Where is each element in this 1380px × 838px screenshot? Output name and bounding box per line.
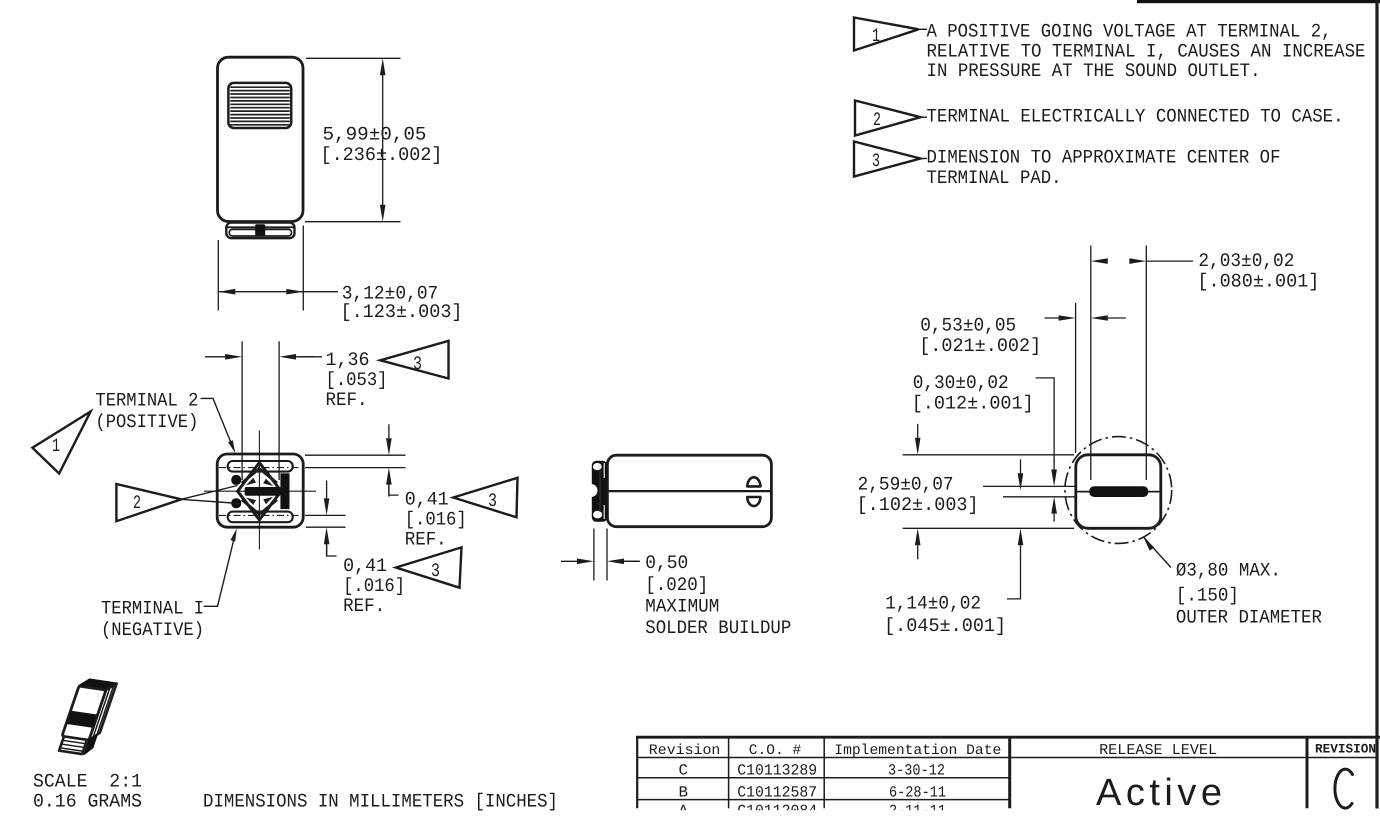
dim 1.14 leader elbow <box>1007 558 1021 599</box>
dim 0.41a leader elbow <box>389 485 399 496</box>
note flag 1 triangle <box>854 18 919 51</box>
revision cell big C <box>1335 769 1353 808</box>
svg-text:0,41: 0,41 <box>405 489 449 511</box>
svg-text:[.021±.002]: [.021±.002] <box>919 335 1041 357</box>
dim 0.41b extension line top <box>305 514 346 516</box>
svg-text:MAXIMUM: MAXIMUM <box>645 595 719 617</box>
revision table revision-cell divider <box>1306 737 1309 808</box>
bottom view bottom slot centerline dashed <box>219 514 301 516</box>
svg-text:2: 2 <box>873 109 881 131</box>
svg-text:0,50: 0,50 <box>645 552 688 574</box>
front view foot slot <box>229 229 291 236</box>
side view lower bump mark <box>747 497 760 506</box>
bottom view internal arrow lower-left <box>246 498 256 505</box>
dim 0.41b flag 3 triangle <box>396 547 462 587</box>
svg-text:SCALE 2:1: SCALE 2:1 <box>33 770 142 792</box>
sheet border right edge <box>1375 0 1378 809</box>
note flag 3 triangle <box>854 142 921 177</box>
dim 1.36 extension line right <box>278 341 280 480</box>
detail view black terminal bar <box>1089 486 1148 497</box>
dim 0.41a arrow up <box>386 468 392 485</box>
svg-text:(NEGATIVE): (NEGATIVE) <box>101 619 204 641</box>
note flag 3 leader stub <box>918 158 927 160</box>
svg-text:OUTER DIAMETER: OUTER DIAMETER <box>1176 607 1322 629</box>
dim 3.12 extension line left <box>217 240 219 311</box>
svg-text:2,59±0,07: 2,59±0,07 <box>858 473 954 495</box>
svg-text:TERMINAL I: TERMINAL I <box>101 598 204 620</box>
dim 0.50 arrows <box>577 559 594 565</box>
dim 0.53 arrows <box>1059 315 1076 321</box>
svg-text:[.016]: [.016] <box>343 575 405 597</box>
dim 0.41a flag 3 triangle <box>453 478 517 518</box>
dim 0.50 extension line right <box>606 529 608 581</box>
svg-text:C.O. #: C.O. # <box>749 743 802 759</box>
side view left terminal <box>591 461 607 522</box>
svg-text:C: C <box>679 762 689 780</box>
svg-text:REF.: REF. <box>343 595 385 617</box>
svg-text:0.16 GRAMS: 0.16 GRAMS <box>33 790 142 812</box>
dim 0.41b extension line bottom <box>306 526 346 528</box>
note flag 1 leader stub <box>916 28 927 30</box>
detail diameter leader line <box>1143 537 1171 568</box>
svg-text:(POSITIVE): (POSITIVE) <box>95 411 198 433</box>
svg-text:Ø3,80 MAX.: Ø3,80 MAX. <box>1176 560 1281 582</box>
svg-text:DIMENSIONS IN MILLIMETERS [INC: DIMENSIONS IN MILLIMETERS [INCHES] <box>203 790 558 812</box>
sheet border top edge (partial) <box>1137 0 1380 3</box>
svg-text:Implementation Date: Implementation Date <box>834 743 1001 759</box>
dim 3.12 dimension line <box>218 291 338 293</box>
front view grille slats <box>230 87 289 125</box>
svg-text:TERMINAL ELECTRICALLY CONNECTE: TERMINAL ELECTRICALLY CONNECTED TO CASE. <box>927 106 1344 128</box>
dim 5.99 extension line top <box>306 57 401 59</box>
bottom view diamond outline <box>238 463 282 520</box>
flag 2 leader upper <box>181 486 237 500</box>
dim 0.41a extension line bottom <box>305 467 406 469</box>
bottom view body outline <box>217 454 303 527</box>
side view mid parting line <box>607 490 771 492</box>
detail view phantom circle <box>1065 437 1172 544</box>
svg-text:[.150]: [.150] <box>1176 585 1239 607</box>
svg-text:1: 1 <box>872 25 880 47</box>
detail diameter leader arrowhead <box>1143 537 1154 551</box>
svg-text:REF.: REF. <box>405 529 447 551</box>
dim 2.59 arrow up <box>915 528 921 545</box>
dim 1.14 arrow down <box>1018 473 1024 490</box>
dim 0.30 leader elbow <box>1036 378 1055 462</box>
side view upper bump mark <box>747 477 760 486</box>
dim 1.36 extension line left <box>241 341 243 480</box>
front view sound-outlet grille frame <box>228 83 291 128</box>
svg-text:3: 3 <box>413 353 422 375</box>
svg-text:0,53±0,05: 0,53±0,05 <box>920 314 1016 336</box>
svg-text:RELEASE LEVEL: RELEASE LEVEL <box>1099 742 1217 759</box>
dim 0.50 extension line left <box>593 529 595 581</box>
dim 0.53 extension line <box>1075 303 1077 453</box>
revision table header underline <box>637 757 1376 759</box>
svg-text:1: 1 <box>52 435 60 457</box>
svg-text:[.045±.001]: [.045±.001] <box>884 615 1006 637</box>
flag 2 leader lower <box>181 499 239 503</box>
svg-text:5,99±0,05: 5,99±0,05 <box>323 124 427 146</box>
bottom view bottom slot <box>228 512 293 523</box>
svg-text:6-28-11: 6-28-11 <box>889 783 946 801</box>
front view foot outline <box>226 223 294 239</box>
svg-text:REF.: REF. <box>326 389 368 411</box>
bottom view horizontal centerline <box>204 490 316 492</box>
isometric view of part <box>57 678 116 755</box>
revision table release-level divider <box>1008 737 1011 808</box>
dim 2.59 extension line bottom <box>903 527 1074 529</box>
front view foot top line <box>228 226 294 228</box>
svg-text:TERMINAL PAD.: TERMINAL PAD. <box>927 167 1062 189</box>
dim 0.41a arrow down <box>386 438 392 455</box>
svg-text:RELATIVE TO TERMINAL I, CAUSES: RELATIVE TO TERMINAL I, CAUSES AN INCREA… <box>927 40 1366 62</box>
revision table row line 1 <box>637 777 1010 779</box>
bottom view center black bar <box>245 487 282 496</box>
dim 3.12 extension line right <box>302 226 304 311</box>
dim 2.03 extension line right <box>1145 246 1147 481</box>
note flag 2 triangle <box>855 101 921 136</box>
dim 0.41b arrow up <box>324 527 330 544</box>
svg-text:3: 3 <box>431 560 440 582</box>
svg-text:A POSITIVE GOING VOLTAGE AT TE: A POSITIVE GOING VOLTAGE AT TERMINAL 2, <box>927 21 1332 43</box>
svg-text:[.053]: [.053] <box>326 369 388 391</box>
detail bar bottom edge extension <box>1003 496 1075 498</box>
svg-text:2,03±0,02: 2,03±0,02 <box>1198 250 1294 272</box>
dim 2.03 arrows <box>1091 258 1108 264</box>
terminal 1 leader <box>204 534 236 607</box>
svg-text:3: 3 <box>488 490 497 512</box>
bottom view internal arrow lower-right <box>263 497 273 504</box>
dim 2.59 extension line top <box>903 454 1074 456</box>
dim 5.99 dimension line with arrows <box>382 75 384 205</box>
dim 0.41a extension line top <box>305 454 406 456</box>
svg-text:TERMINAL 2: TERMINAL 2 <box>95 390 198 412</box>
detail bar top edge extension <box>983 485 1075 487</box>
svg-text:B: B <box>679 783 689 801</box>
dim 1.14 arrow up <box>1018 528 1024 545</box>
dim 0.41b leader elbow <box>327 544 337 556</box>
flag 2 triangle (bottom view) <box>116 484 181 521</box>
svg-text:3-30-12: 3-30-12 <box>888 762 945 780</box>
svg-text:SOLDER BUILDUP: SOLDER BUILDUP <box>645 617 791 639</box>
dim 1.36 flag 3 triangle <box>380 341 448 379</box>
bottom view internal arrow upper-left <box>246 478 256 485</box>
svg-text:2: 2 <box>133 492 141 514</box>
bottom view up chevron <box>242 469 277 483</box>
revision table row line 2 <box>637 799 1010 801</box>
revision table left border <box>636 737 638 808</box>
svg-text:C10112587: C10112587 <box>737 783 817 801</box>
svg-text:1,36: 1,36 <box>326 349 370 371</box>
svg-text:REVISION: REVISION <box>1315 741 1376 756</box>
front view body outline <box>218 57 304 221</box>
svg-text:Active: Active <box>1096 772 1222 814</box>
svg-text:[.012±.001]: [.012±.001] <box>912 393 1034 415</box>
bottom view left pad lower <box>231 498 241 508</box>
terminal 2 leader <box>201 398 234 448</box>
front view foot center terminal mark <box>255 224 265 236</box>
bottom view down chevron <box>242 500 277 514</box>
revision table column line 1 <box>728 737 730 808</box>
svg-text:[.080±.001]: [.080±.001] <box>1197 270 1319 292</box>
bottom view left pad upper <box>231 475 241 485</box>
detail view body outline <box>1076 455 1161 529</box>
svg-text:1,14±0,02: 1,14±0,02 <box>885 593 981 615</box>
dim 1.36 arrows <box>225 354 242 360</box>
dim 5.99 extension line bottom <box>305 221 401 223</box>
svg-text:[.102±.003]: [.102±.003] <box>857 494 979 516</box>
bottom view vertical centerline <box>258 431 260 550</box>
dim 2.59 arrow down <box>915 438 921 455</box>
note flag 2 leader stub <box>918 116 927 118</box>
svg-text:DIMENSION TO APPROXIMATE CENTE: DIMENSION TO APPROXIMATE CENTER OF <box>927 147 1281 169</box>
dim 0.30 arrow down <box>1051 469 1057 486</box>
side view body outline <box>607 455 771 527</box>
svg-text:0,41: 0,41 <box>343 555 387 577</box>
bottom view right black bar <box>280 473 289 509</box>
svg-text:[.020]: [.020] <box>645 574 708 596</box>
svg-text:[.236±.002]: [.236±.002] <box>321 144 443 166</box>
bottom view top slot <box>228 461 293 472</box>
svg-text:[.123±.003]: [.123±.003] <box>341 301 463 323</box>
bottom crop whitespace <box>600 810 1380 838</box>
svg-text:3: 3 <box>872 150 880 172</box>
svg-text:0,30±0,02: 0,30±0,02 <box>913 372 1009 394</box>
dim 0.30 arrow up <box>1051 497 1057 514</box>
svg-text:[.016]: [.016] <box>405 509 467 531</box>
bottom view top slot centerline dashed <box>219 467 301 469</box>
revision table column line 2 <box>823 737 825 808</box>
svg-text:C10113289: C10113289 <box>737 762 817 780</box>
terminal 1 leader arrowhead <box>230 529 236 542</box>
revision table top border <box>636 736 1380 739</box>
flag 1 triangle (bottom view) <box>32 412 90 474</box>
terminal 2 leader arrowhead <box>228 440 235 453</box>
dim 2.03 extension line left <box>1090 246 1092 481</box>
detail view mid line <box>1076 491 1161 493</box>
svg-text:Revision: Revision <box>649 743 721 759</box>
bottom view internal arrow upper-right <box>263 479 273 486</box>
dim 0.41b arrow down <box>324 498 330 515</box>
svg-text:IN PRESSURE AT THE SOUND OUTLE: IN PRESSURE AT THE SOUND OUTLET. <box>927 60 1261 82</box>
